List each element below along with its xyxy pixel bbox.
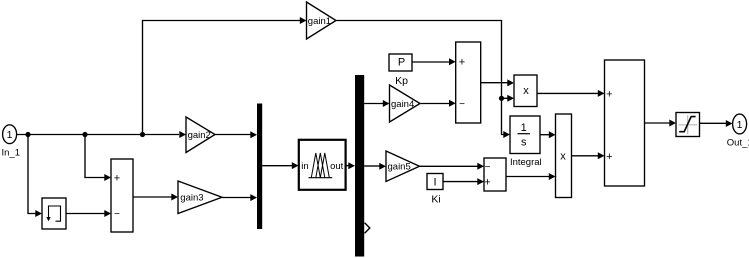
wire big sum to saturation	[645, 120, 677, 127]
svg-text:1: 1	[737, 119, 743, 131]
svg-text:+: +	[459, 57, 465, 69]
svg-text:+: +	[606, 151, 612, 163]
wire I to sum S3 plus	[443, 178, 484, 185]
wire In_1 to gain2	[17, 131, 186, 138]
demux unconnected output chevron	[365, 223, 370, 233]
svg-text:−: −	[114, 209, 120, 220]
wire sum S2 to x1	[481, 79, 514, 86]
node junction dot 1	[25, 132, 30, 137]
svg-text:1: 1	[521, 122, 527, 134]
svg-text:out: out	[330, 161, 344, 172]
wire x1 to big sum	[537, 90, 605, 97]
demux bar	[355, 75, 364, 257]
wire memory to sum	[66, 210, 111, 217]
integrator 1/s	[510, 116, 542, 168]
svg-text:Out_1: Out_1	[727, 137, 749, 148]
svg-text:s: s	[521, 137, 527, 149]
memory block	[42, 198, 66, 229]
wire sum S3 to x2	[506, 173, 556, 180]
gain2	[186, 117, 215, 153]
wire gain1 to x1 and integrator	[336, 21, 510, 139]
saturation block	[676, 113, 700, 137]
svg-text:gain3: gain3	[180, 193, 203, 204]
node junction dot 3	[140, 132, 145, 137]
input port In_1	[2, 125, 21, 159]
node junction dot 4	[499, 96, 504, 101]
gain5	[386, 151, 420, 182]
constant I block	[427, 174, 443, 206]
svg-text:−: −	[485, 162, 491, 173]
wire branch down to sum plus	[85, 135, 111, 182]
svg-text:+: +	[606, 88, 612, 100]
gain1	[307, 2, 337, 39]
wire P to sum S2 plus	[412, 58, 456, 65]
big sum block S4	[605, 60, 645, 186]
wire spur to x1 lower input	[502, 95, 515, 102]
gain4	[390, 85, 421, 122]
wire demux to gain4	[364, 100, 389, 107]
svg-text:gain1: gain1	[308, 16, 331, 27]
wire branch down to Memory	[28, 135, 42, 218]
wire gain5 to sum S3 minus	[420, 163, 485, 170]
svg-text:+: +	[484, 177, 490, 189]
wire integrator to x2	[540, 131, 556, 138]
wire x2 to big sum	[572, 152, 605, 159]
svg-text:I: I	[433, 177, 436, 189]
svg-text:x: x	[560, 150, 566, 162]
svg-text:+: +	[114, 173, 120, 185]
svg-text:gain2: gain2	[188, 130, 211, 141]
svg-text:gain5: gain5	[388, 162, 411, 173]
wire sum S1 to gain3	[133, 194, 178, 201]
svg-text:Ki: Ki	[431, 194, 440, 206]
svg-text:x: x	[523, 85, 529, 97]
sum block S1 (error difference)	[111, 159, 133, 232]
svg-text:1: 1	[7, 129, 13, 141]
wire saturation to Out_1	[700, 120, 733, 127]
mux bar	[257, 104, 262, 230]
node junction dot 2	[82, 132, 87, 137]
product x2	[556, 114, 572, 198]
wire gain3 to mux	[222, 194, 257, 201]
constant P block	[389, 54, 412, 87]
svg-text:gain4: gain4	[391, 99, 414, 110]
fuzzy logic controller block	[299, 140, 346, 190]
wire demux to gain5	[364, 163, 386, 170]
sum block S2 (Kp - gain4)	[456, 42, 481, 123]
wire fuzzy to demux	[346, 162, 355, 169]
sum block S3 (Ki - gain5)	[484, 158, 506, 191]
product x1	[514, 75, 537, 107]
svg-text:Integral: Integral	[510, 157, 542, 168]
svg-text:in: in	[301, 161, 308, 172]
svg-text:P: P	[398, 57, 405, 69]
wire branch up to gain1	[143, 17, 307, 135]
wire gain2 to mux	[215, 131, 257, 138]
wire gain4 to sum S2 minus	[420, 100, 456, 107]
svg-text:−: −	[459, 99, 465, 110]
svg-text:In_1: In_1	[2, 148, 21, 159]
svg-text:Kp: Kp	[395, 75, 408, 87]
gain3	[178, 181, 222, 214]
wire mux to fuzzy	[262, 162, 298, 169]
output port Out_1	[727, 114, 749, 148]
